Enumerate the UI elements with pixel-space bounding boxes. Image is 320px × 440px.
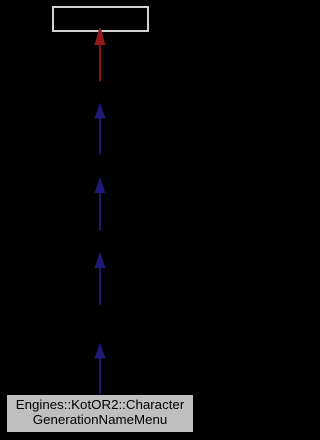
- arrow: blue inheritance arrow 1: [95, 103, 106, 155]
- arrow: blue inheritance arrow 3: [95, 252, 106, 305]
- node: current class box with label: [6, 394, 194, 433]
- arrow: dark red inheritance arrow to base class: [95, 28, 106, 81]
- arrow: blue inheritance arrow 2: [95, 177, 106, 230]
- arrow: blue inheritance arrow 4: [95, 343, 106, 395]
- node: base class box (empty, dark): [52, 6, 149, 32]
